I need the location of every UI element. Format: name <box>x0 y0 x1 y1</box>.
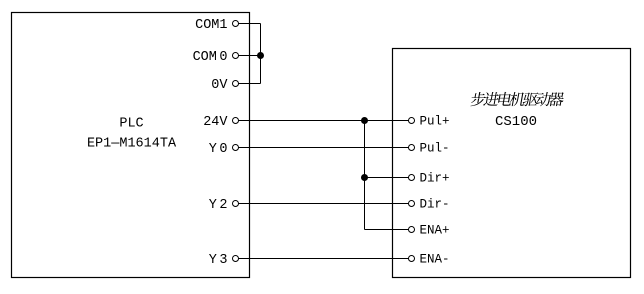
svg-text:ENA-: ENA- <box>420 253 450 267</box>
terminal 24V <box>203 115 238 130</box>
terminal ENA+ <box>409 224 450 238</box>
terminal Y3 <box>209 253 239 268</box>
terminal ENA- <box>409 253 450 267</box>
driver box CS100 <box>393 49 631 278</box>
terminal COM1 <box>195 18 238 33</box>
svg-text:Pul-: Pul- <box>420 142 450 156</box>
svg-text:Dir-: Dir- <box>420 198 450 212</box>
wire 24V to Pul+ <box>236 120 412 122</box>
svg-text:Pul+: Pul+ <box>420 115 450 129</box>
wire Y3 to ENA- <box>236 258 412 260</box>
svg-text:EP1—M1614TA: EP1—M1614TA <box>87 137 177 152</box>
wire COM1 to bus <box>236 23 261 25</box>
terminal Dir- <box>409 198 450 212</box>
svg-text:COM1: COM1 <box>195 18 227 33</box>
wire 0V to bus <box>236 83 261 85</box>
terminal Y2 <box>209 198 239 213</box>
junction at COM0 <box>257 52 264 59</box>
terminal Pul- <box>409 142 450 156</box>
label 步进电机驱动器 <box>470 92 565 106</box>
wire branch vertical 24V to ENA+ <box>364 121 366 230</box>
terminal COM0 <box>193 50 239 65</box>
svg-text:0V: 0V <box>211 78 228 93</box>
svg-text:COM0: COM0 <box>193 50 228 65</box>
wire COM bus vertical <box>260 24 262 84</box>
wire Y2 to Dir- <box>236 203 412 205</box>
wire branch to Dir+ <box>365 177 412 179</box>
svg-text:Dir+: Dir+ <box>420 172 450 186</box>
svg-text:PLC: PLC <box>119 117 143 132</box>
PLC box <box>12 13 250 278</box>
svg-text:ENA+: ENA+ <box>420 224 450 238</box>
junction at Dir+ branch <box>361 174 368 181</box>
wire Y0 to Pul- <box>236 147 412 149</box>
terminal Pul+ <box>409 115 450 129</box>
terminal Y0 <box>209 142 239 157</box>
wire branch to ENA+ <box>365 229 412 231</box>
terminal 0V <box>211 78 238 93</box>
svg-text:24V: 24V <box>203 115 228 130</box>
junction at 24V branch <box>361 117 368 124</box>
wire COM0 to bus <box>236 55 261 57</box>
terminal Dir+ <box>409 172 450 186</box>
svg-text:CS100: CS100 <box>495 114 537 130</box>
